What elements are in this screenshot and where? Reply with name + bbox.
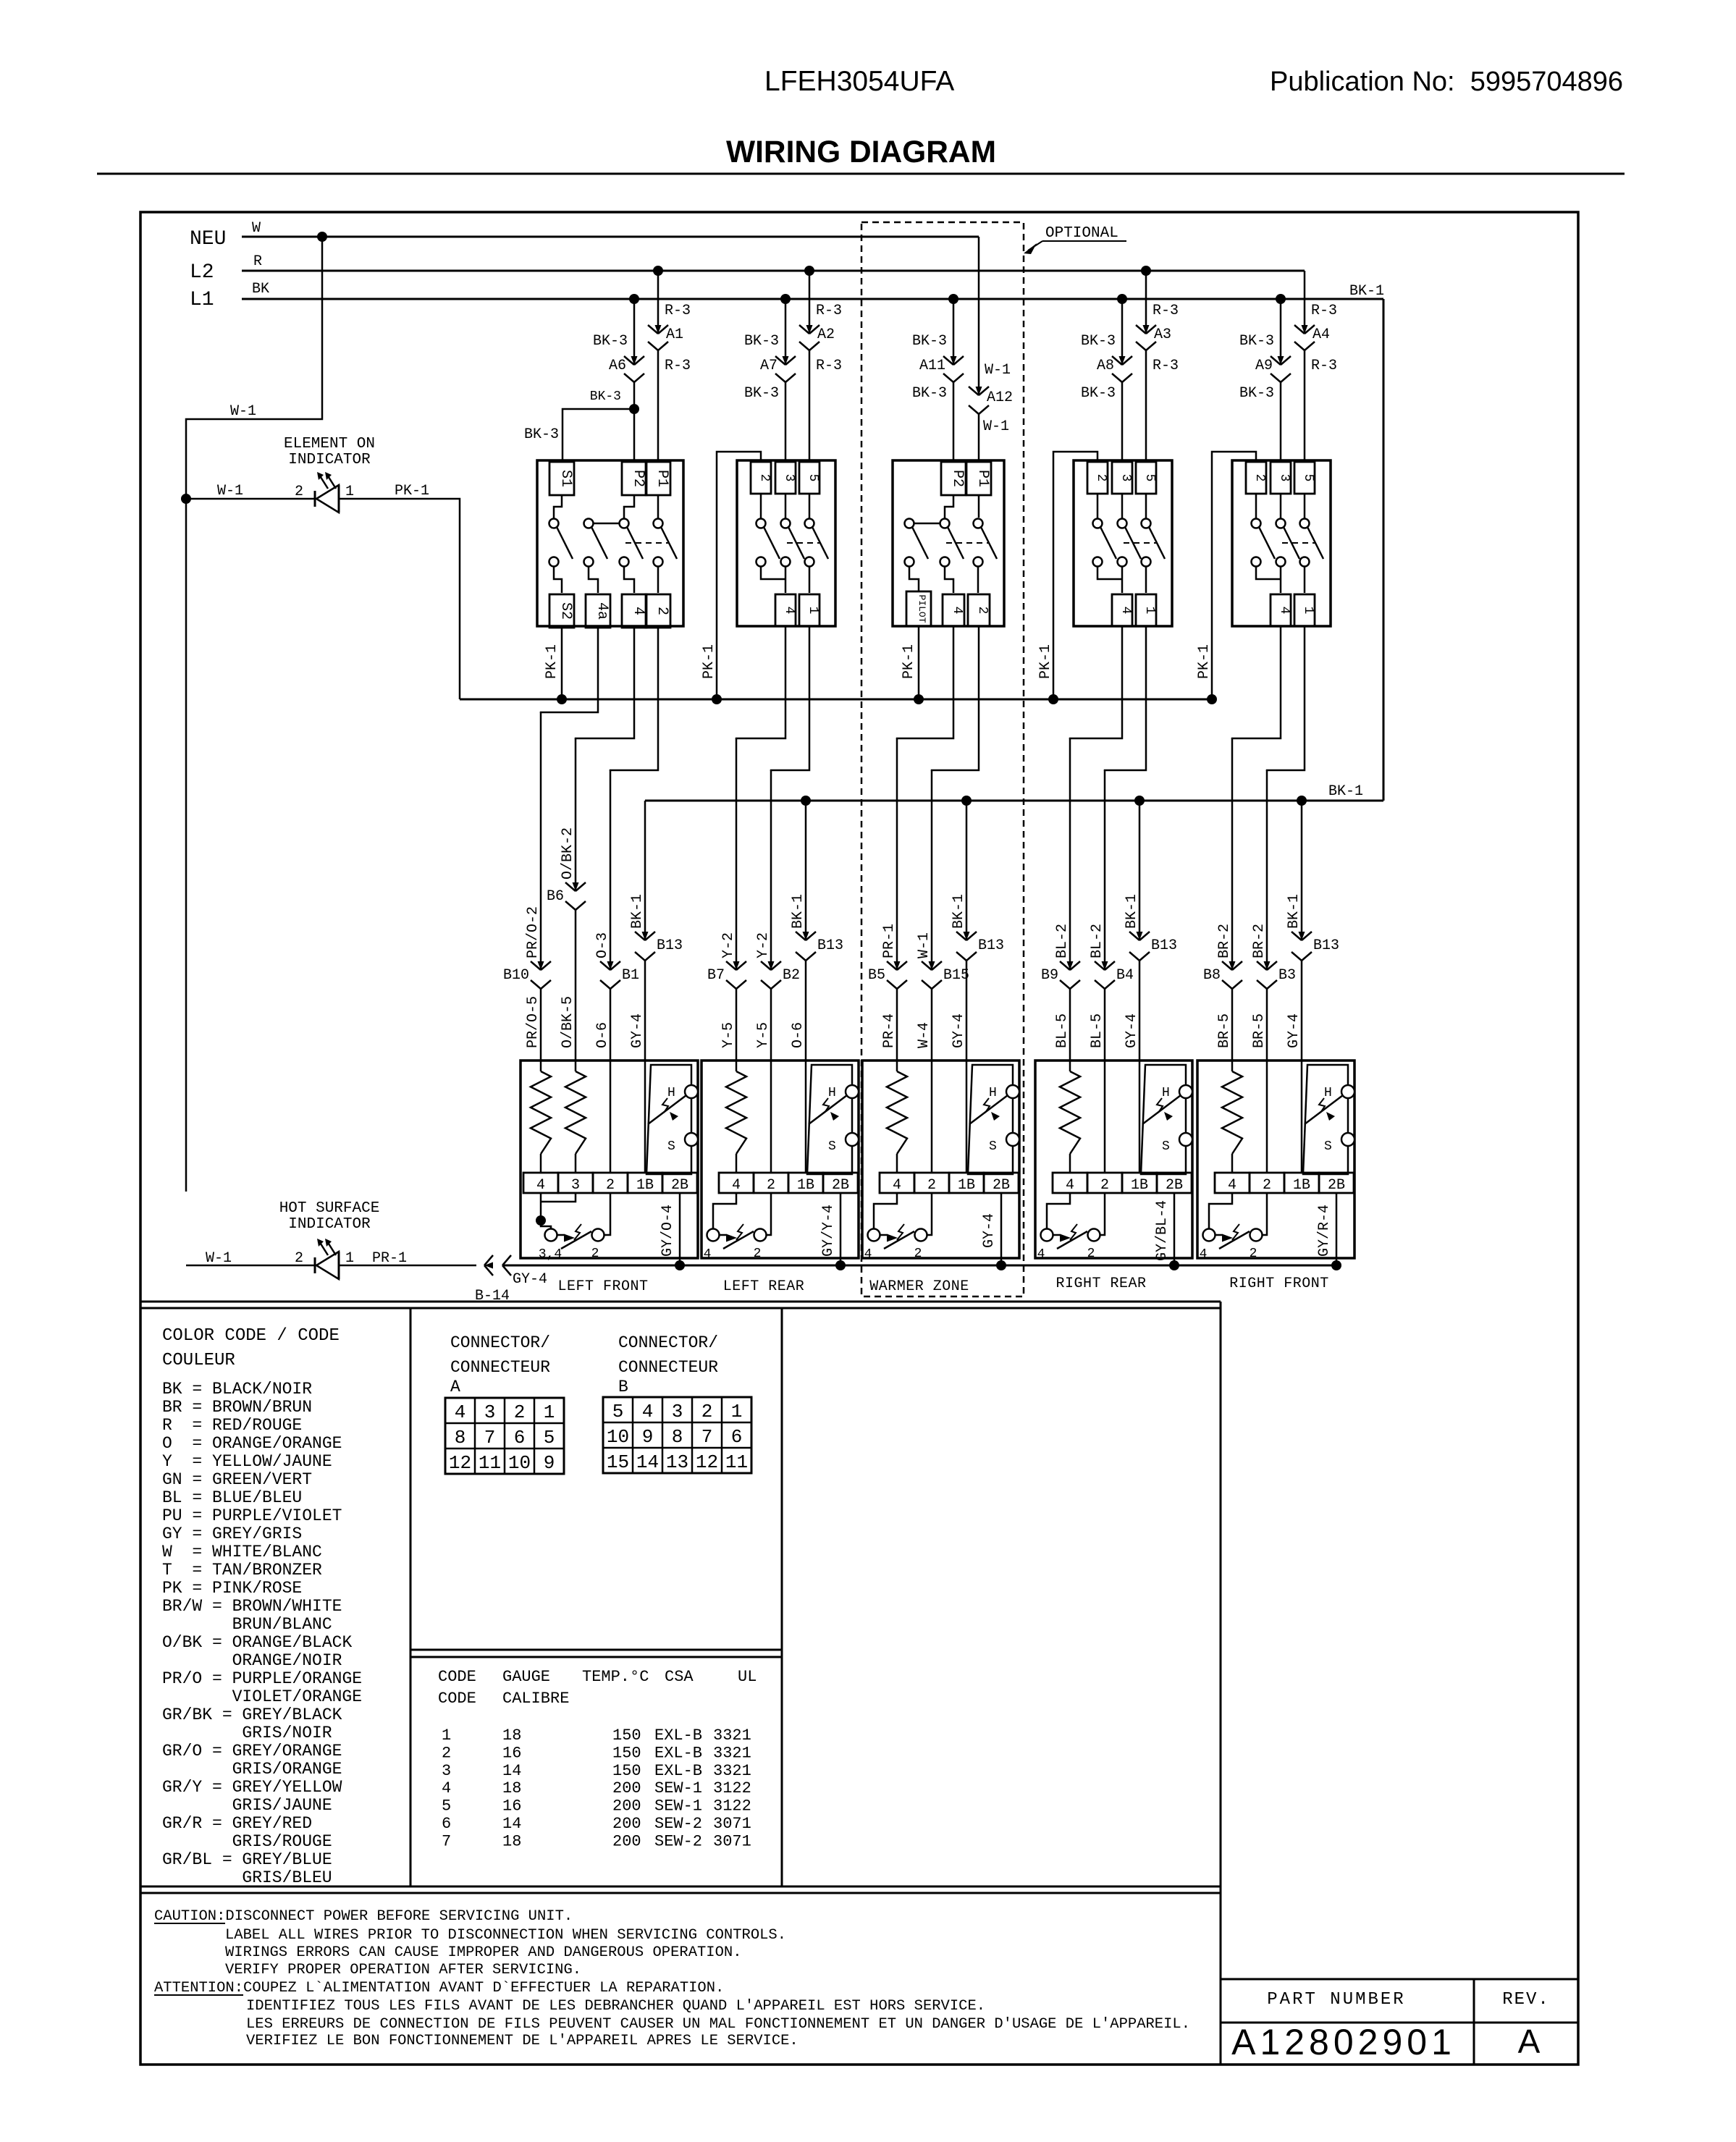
- wire Y-2 into connector B2 (sec2 w2): [770, 770, 772, 970]
- wire PK-1 loop from terminal 2 of SW2 to PK-1 bus: [717, 452, 761, 699]
- svg-text:150: 150: [612, 1726, 641, 1745]
- wire PK-1 from element-on indicator to PK-1 bus: [339, 499, 460, 699]
- svg-text:CONNECTOR/: CONNECTOR/: [618, 1333, 718, 1352]
- svg-text:W-1: W-1: [983, 418, 1009, 435]
- connector B13 male half: [635, 932, 645, 940]
- svg-text:2: 2: [654, 607, 670, 615]
- wire PK-1 from S2 of SW1 to PK-1 bus: [561, 626, 563, 699]
- wire PK-1 horizontal bus: [460, 699, 1212, 701]
- junction PK-1 bus at SW1: [557, 694, 567, 704]
- svg-text:HOT SURFACE: HOT SURFACE: [279, 1200, 380, 1217]
- connector B9 female half: [1060, 980, 1070, 989]
- svg-text:PK-1: PK-1: [544, 644, 560, 679]
- selector blade in WARMER ZONE: [880, 1234, 887, 1236]
- svg-text:GRIS/ROUGE: GRIS/ROUGE: [232, 1832, 332, 1851]
- wire into terminal 2 of RIGHT FRONT: [1266, 1061, 1268, 1173]
- svg-text:BK-3: BK-3: [744, 385, 779, 402]
- selector contact B in RIGHT FRONT: [1250, 1229, 1263, 1241]
- legend bottom border: [140, 1886, 1221, 1888]
- svg-text:LEFT REAR: LEFT REAR: [723, 1278, 805, 1295]
- connector A3 female half: [1136, 342, 1146, 350]
- svg-text:2B: 2B: [993, 1177, 1010, 1194]
- wire BK-3 from A11 to switch: [953, 382, 955, 460]
- connector A1 female half: [648, 342, 658, 350]
- border frame of schematic sheet: [140, 212, 1578, 2065]
- svg-text:VIOLET/ORANGE: VIOLET/ORANGE: [232, 1687, 362, 1706]
- svg-text:16: 16: [502, 1797, 521, 1816]
- ganged dashed link in SW2: [787, 542, 819, 544]
- wire R-3 drop to connector A3: [1145, 271, 1147, 334]
- svg-text:PILOT: PILOT: [917, 594, 927, 623]
- heating element resistor at x=1478 in RIGHT REAR: [1069, 1061, 1071, 1071]
- svg-text:LFEH3054UFA: LFEH3054UFA: [764, 66, 954, 97]
- contacts of SW3: [945, 495, 953, 519]
- selector contact B in RIGHT REAR: [1088, 1229, 1100, 1241]
- wire BR-2 into connector B3 (sec5 w2): [1266, 770, 1268, 970]
- svg-text:TEMP.°C: TEMP.°C: [582, 1668, 649, 1686]
- svg-text:GRIS/ORANGE: GRIS/ORANGE: [232, 1760, 342, 1779]
- svg-text:B13: B13: [1313, 937, 1339, 954]
- svg-text:B: B: [618, 1378, 628, 1396]
- heating element block RIGHT REAR: [1035, 1061, 1192, 1258]
- link between contacts 2 and 3 of SW1: [594, 523, 619, 525]
- svg-text:18: 18: [502, 1832, 521, 1850]
- svg-text:2: 2: [295, 484, 303, 500]
- wire into terminal 1B of WARMER ZONE: [966, 1061, 968, 1173]
- contacts of SW5: [1255, 494, 1257, 519]
- wire BK-1 right drop from L1 to lower BK-1 bus: [1383, 299, 1385, 801]
- connector A4 female half: [1294, 342, 1305, 350]
- svg-text:RIGHT REAR: RIGHT REAR: [1055, 1275, 1146, 1292]
- wire BL-2 into connector B9 (sec4 w1): [1069, 738, 1071, 970]
- wire L2 (R) bus: [242, 270, 1305, 272]
- heating element block LEFT FRONT: [521, 1061, 698, 1258]
- svg-text:P2: P2: [630, 470, 646, 487]
- terminal 4 of SW5: [1271, 594, 1291, 626]
- svg-text:4: 4: [732, 1177, 741, 1194]
- svg-text:GY/Y-4: GY/Y-4: [820, 1205, 837, 1257]
- terminal S2 of SW1: [549, 594, 574, 628]
- svg-text:5: 5: [1301, 474, 1315, 482]
- switch SW4 (RIGHT REAR) body: [1074, 460, 1172, 626]
- svg-text:1: 1: [442, 1726, 451, 1745]
- svg-text:4: 4: [1200, 1247, 1208, 1262]
- contacts of SW1: [554, 495, 562, 519]
- svg-text:EXL-B: EXL-B: [654, 1726, 702, 1745]
- connector B1 male half: [600, 961, 610, 970]
- terminal 1 of SW2: [799, 594, 819, 626]
- svg-text:ELEMENT ON: ELEMENT ON: [284, 436, 375, 452]
- junction PK-1 bus at SW3: [914, 694, 924, 704]
- ganged dashed link in SW1: [625, 542, 668, 544]
- svg-text:15: 15: [607, 1451, 629, 1473]
- svg-text:1: 1: [806, 607, 820, 615]
- terminal 1B of RIGHT REAR element: [1122, 1173, 1157, 1193]
- junction L1 feed SW5: [1276, 294, 1286, 304]
- wire BK-1 into connector B13 (sec2 w3): [805, 801, 807, 940]
- svg-text:7: 7: [701, 1426, 713, 1448]
- terminal 1B of RIGHT FRONT element: [1284, 1173, 1319, 1193]
- svg-text:18: 18: [502, 1726, 521, 1745]
- svg-text:GY-4: GY-4: [1286, 1013, 1302, 1048]
- terminal 2 of WARMER ZONE element: [914, 1173, 949, 1193]
- wire L1 (BK) bus: [242, 298, 1383, 300]
- svg-text:PK = PINK/ROSE: PK = PINK/ROSE: [162, 1579, 302, 1598]
- svg-text:2: 2: [767, 1177, 775, 1194]
- svg-text:16: 16: [502, 1744, 521, 1762]
- svg-text:CONNECTOR/: CONNECTOR/: [450, 1333, 550, 1352]
- wire BL-5 from B9 into element: [1069, 989, 1071, 1061]
- connector B13 female half: [635, 952, 645, 961]
- connector B10 female half: [531, 980, 541, 989]
- wire BR-5 from B8 into element: [1231, 989, 1234, 1061]
- svg-text:NEU: NEU: [190, 228, 226, 250]
- junction PK-1 bus at SW5: [1207, 694, 1217, 704]
- svg-text:3: 3: [1118, 474, 1133, 482]
- selector contact A in WARMER ZONE: [868, 1229, 880, 1241]
- wire GY-4 from B13 into element: [1139, 961, 1141, 1061]
- terminal 2 of SW4: [1087, 462, 1108, 494]
- svg-text:A2: A2: [817, 326, 835, 343]
- svg-text:CODE: CODE: [438, 1690, 476, 1708]
- terminal 2B of RIGHT FRONT element: [1319, 1173, 1354, 1193]
- svg-text:PR-1: PR-1: [881, 924, 898, 958]
- svg-text:14: 14: [502, 1815, 521, 1833]
- svg-text:PK-1: PK-1: [395, 483, 429, 499]
- wire PK-1 from PILOT of SW3 to PK-1 bus: [918, 626, 920, 699]
- svg-text:1: 1: [1301, 607, 1315, 615]
- svg-text:2: 2: [975, 607, 990, 615]
- wire O/BK-5 from B6 into element: [575, 910, 577, 1061]
- svg-text:4a: 4a: [594, 602, 610, 620]
- thermal limiter of RIGHT FRONT: [1303, 1065, 1348, 1174]
- wire R-3 from A1 to switch terminal 5: [657, 350, 660, 460]
- connector B13 male half: [796, 932, 806, 940]
- svg-text:H: H: [1162, 1086, 1170, 1100]
- terminal 4 of LEFT FRONT element: [523, 1173, 558, 1193]
- junction L1 feed SW2: [780, 294, 791, 304]
- svg-text:5: 5: [544, 1427, 555, 1449]
- connector A2 female half: [799, 342, 809, 350]
- svg-text:W: W: [252, 220, 261, 237]
- svg-text:PK-1: PK-1: [1037, 644, 1054, 679]
- svg-text:GRIS/BLEU: GRIS/BLEU: [242, 1868, 332, 1887]
- svg-text:7: 7: [442, 1832, 451, 1850]
- svg-text:H: H: [989, 1086, 997, 1100]
- terminal 4 of WARMER ZONE element: [880, 1173, 914, 1193]
- terminal 2 of SW1: [646, 594, 670, 628]
- wire GY-4 bottom bus under elements: [502, 1265, 1336, 1267]
- wire Y-5 from B7 into element: [736, 989, 738, 1061]
- connector B10 male half: [531, 961, 541, 970]
- connector B5 male half: [887, 961, 897, 970]
- junction at bottom bus LEFT FRONT: [675, 1260, 685, 1270]
- svg-text:S: S: [989, 1139, 997, 1154]
- junction L1 feed SW3: [948, 294, 958, 304]
- svg-text:O/BK-5: O/BK-5: [560, 996, 576, 1048]
- svg-text:CSA: CSA: [665, 1668, 694, 1686]
- svg-text:3122: 3122: [713, 1797, 751, 1816]
- terminal 2 of LEFT REAR element: [754, 1173, 788, 1193]
- selector contact B in LEFT REAR: [754, 1229, 767, 1241]
- wire GY to bus from terminal 2B of LEFT REAR: [840, 1193, 842, 1265]
- wire BL-5 from B4 into element: [1104, 989, 1106, 1061]
- svg-text:1: 1: [345, 1250, 354, 1267]
- svg-text:B4: B4: [1116, 967, 1134, 984]
- svg-text:R-3: R-3: [1311, 303, 1337, 319]
- svg-text:L2: L2: [190, 261, 214, 284]
- terminal 4 of SW2: [775, 594, 796, 626]
- connector B9 male half: [1060, 961, 1070, 970]
- thermal limiter of WARMER ZONE: [968, 1065, 1013, 1174]
- svg-text:GY/O-4: GY/O-4: [660, 1205, 676, 1257]
- svg-text:1: 1: [544, 1401, 555, 1423]
- selector contact A in LEFT FRONT: [545, 1229, 557, 1241]
- svg-text:10: 10: [607, 1426, 629, 1448]
- svg-text:WIRING DIAGRAM: WIRING DIAGRAM: [726, 135, 996, 169]
- limiter blade of LEFT FRONT: [648, 1095, 686, 1124]
- svg-text:IDENTIFIEZ TOUS LES FILS AVANT: IDENTIFIEZ TOUS LES FILS AVANT DE LES DE…: [246, 1998, 985, 2015]
- terminal 3 of LEFT FRONT element: [558, 1173, 593, 1193]
- wire into terminal 2 of LEFT REAR: [770, 1061, 772, 1173]
- svg-text:H: H: [667, 1086, 675, 1100]
- svg-text:4: 4: [893, 1177, 901, 1194]
- terminal 3 of SW5: [1271, 462, 1291, 494]
- wire GY to bus from terminal 2B of WARMER ZONE: [1000, 1193, 1003, 1265]
- svg-text:ORANGE/NOIR: ORANGE/NOIR: [232, 1651, 342, 1670]
- svg-text:A: A: [1518, 2023, 1541, 2060]
- svg-text:3321: 3321: [713, 1762, 751, 1780]
- svg-text:6: 6: [514, 1427, 526, 1449]
- svg-text:3: 3: [782, 474, 796, 482]
- wire terminal 4 hook in LEFT REAR: [713, 1193, 736, 1228]
- svg-text:GY/BL-4: GY/BL-4: [1154, 1200, 1171, 1261]
- svg-text:B5: B5: [868, 967, 885, 984]
- connector A6 male half: [624, 356, 634, 365]
- svg-text:3321: 3321: [713, 1744, 751, 1762]
- heating element block WARMER ZONE: [862, 1061, 1019, 1258]
- svg-text:1: 1: [731, 1401, 743, 1422]
- svg-text:A1: A1: [666, 326, 683, 343]
- wire into terminal 1B of RIGHT FRONT: [1301, 1061, 1303, 1173]
- svg-text:3071: 3071: [713, 1832, 751, 1850]
- LED hot surface indicator: [314, 1257, 316, 1273]
- junction BK-3 branch to S1: [629, 404, 639, 414]
- svg-text:PK-1: PK-1: [701, 644, 717, 679]
- svg-text:GN = GREEN/VERT: GN = GREEN/VERT: [162, 1470, 312, 1489]
- svg-text:4: 4: [864, 1247, 872, 1262]
- svg-text:BK-3: BK-3: [524, 426, 559, 443]
- connector B8 male half: [1222, 961, 1232, 970]
- svg-text:O-6: O-6: [790, 1022, 806, 1048]
- svg-text:CALIBRE: CALIBRE: [502, 1690, 569, 1708]
- wire BL-2 into connector B4 (sec4 w2): [1104, 770, 1106, 970]
- svg-text:EXL-B: EXL-B: [654, 1762, 702, 1780]
- selector blade in LEFT REAR: [720, 1234, 726, 1236]
- svg-text:W-1: W-1: [985, 362, 1011, 379]
- svg-text:GY-4: GY-4: [629, 1013, 646, 1048]
- terminal 4 of RIGHT REAR element: [1053, 1173, 1087, 1193]
- wire R-3 from A3 to switch terminal 5: [1145, 350, 1147, 460]
- connector B pin table: [603, 1397, 751, 1473]
- terminal 4 of SW3: [943, 594, 964, 626]
- junction L2 feed SW1: [653, 266, 663, 276]
- svg-text:1B: 1B: [958, 1177, 975, 1194]
- svg-text:3321: 3321: [713, 1726, 751, 1745]
- selector contact B in LEFT FRONT: [592, 1229, 604, 1241]
- switch SW2 (LEFT REAR) body: [737, 460, 835, 626]
- terminal P1 of SW1: [646, 462, 670, 495]
- wire BK-1 into connector B13 (sec4 w3): [1139, 801, 1141, 940]
- legend area top border lines: [140, 1301, 1221, 1303]
- wire W-4 from B15 into element: [931, 989, 933, 1061]
- connector B13 female half: [956, 952, 966, 961]
- svg-text:GAUGE: GAUGE: [502, 1668, 550, 1686]
- svg-text:2: 2: [295, 1250, 303, 1267]
- wire contact B to terminal 2 in LEFT REAR: [767, 1193, 771, 1235]
- bottom contact links of SW3: [909, 566, 919, 591]
- svg-text:BK-3: BK-3: [1081, 333, 1116, 350]
- svg-text:SEW-2: SEW-2: [654, 1832, 702, 1850]
- svg-text:3: 3: [442, 1762, 451, 1780]
- connector B4 female half: [1095, 980, 1105, 989]
- svg-text:Y-2: Y-2: [755, 932, 772, 958]
- limiter contact H of WARMER ZONE: [1006, 1085, 1019, 1098]
- wire GY-4 from B13 into element: [966, 961, 968, 1061]
- svg-text:O-3: O-3: [594, 932, 611, 958]
- connector B2 male half: [761, 961, 771, 970]
- heating element resistor at x=747 in LEFT FRONT: [540, 1061, 542, 1071]
- thermal limiter of LEFT REAR: [807, 1065, 852, 1174]
- terminal 2 of SW3: [968, 594, 990, 626]
- svg-text:BK-1: BK-1: [951, 894, 967, 929]
- svg-text:BK-3: BK-3: [744, 333, 779, 350]
- svg-text:BK-3: BK-3: [1081, 385, 1116, 402]
- svg-text:INDICATOR: INDICATOR: [288, 452, 371, 468]
- wire BR-5 from B3 into element: [1266, 989, 1268, 1061]
- legend vertical divider right of color-code box: [410, 1308, 412, 1886]
- svg-text:PR/O-2: PR/O-2: [525, 906, 542, 958]
- connector B15 male half: [922, 961, 932, 970]
- junction W-1 at element-on indicator: [181, 494, 191, 504]
- svg-text:1B: 1B: [1131, 1177, 1148, 1194]
- svg-text:150: 150: [612, 1744, 641, 1762]
- terminal P2 of SW3: [941, 462, 966, 495]
- svg-text:6: 6: [731, 1426, 743, 1448]
- wire BK-3 drop to connector A6: [633, 299, 636, 365]
- svg-text:W = WHITE/BLANC: W = WHITE/BLANC: [162, 1543, 322, 1561]
- selector contact B in WARMER ZONE: [915, 1229, 927, 1241]
- svg-text:7: 7: [484, 1427, 496, 1449]
- svg-text:2: 2: [701, 1401, 713, 1422]
- wire BR-2 jog from switch to element column: [1232, 626, 1281, 739]
- ganged dashed link in SW5: [1282, 542, 1315, 544]
- svg-text:O/BK = ORANGE/BLACK: O/BK = ORANGE/BLACK: [162, 1633, 352, 1652]
- junction BK-1 bus at section 5: [1297, 796, 1307, 806]
- svg-text:4: 4: [442, 1779, 451, 1797]
- svg-text:COLOR CODE / CODE: COLOR CODE / CODE: [162, 1326, 340, 1346]
- connector A7 female half: [775, 374, 785, 382]
- connector B13 male half: [1292, 932, 1302, 940]
- svg-text:P2: P2: [949, 470, 966, 487]
- terminal S1 of SW1: [549, 462, 574, 495]
- bottom contact links of SW5: [1256, 566, 1281, 579]
- svg-text:3: 3: [1277, 474, 1292, 482]
- wire PR-1 from hot-surface indicator to connector B-14: [339, 1265, 476, 1267]
- svg-text:O = ORANGE/ORANGE: O = ORANGE/ORANGE: [162, 1434, 342, 1453]
- svg-text:2: 2: [1087, 1247, 1095, 1261]
- svg-text:EXL-B: EXL-B: [654, 1744, 702, 1762]
- svg-text:R-3: R-3: [1153, 358, 1179, 374]
- svg-text:BK = BLACK/NOIR: BK = BLACK/NOIR: [162, 1380, 312, 1399]
- limiter blade of LEFT REAR: [809, 1095, 847, 1124]
- svg-text:PR/O-5: PR/O-5: [525, 996, 542, 1048]
- svg-text:GR/R = GREY/RED: GR/R = GREY/RED: [162, 1814, 312, 1833]
- wire BK-3 from branch junction to P2 terminal: [633, 409, 636, 460]
- terminal 1B of LEFT REAR element: [788, 1173, 823, 1193]
- limiter contact S of LEFT REAR: [846, 1133, 859, 1146]
- svg-text:B6: B6: [547, 888, 564, 905]
- wire O-3 jog from switch to element column: [610, 626, 658, 771]
- contacts of SW2: [760, 494, 762, 519]
- wire GY-4 from B13 into element: [1301, 961, 1303, 1061]
- wire BK-3 from A7 to switch: [785, 382, 787, 460]
- svg-text:UL: UL: [738, 1668, 757, 1686]
- connector B-14 male half: [484, 1255, 493, 1265]
- svg-text:VERIFY PROPER OPERATION AFTER: VERIFY PROPER OPERATION AFTER SERVICING.: [225, 1962, 581, 1978]
- switch SW3 (WARMER ZONE) body: [893, 460, 1004, 626]
- svg-text:150: 150: [612, 1762, 641, 1780]
- svg-text:BL-2: BL-2: [1054, 924, 1071, 958]
- svg-text:BK-1: BK-1: [1124, 894, 1140, 929]
- limiter blade of RIGHT REAR: [1142, 1095, 1181, 1124]
- connector A8 female half: [1112, 374, 1122, 382]
- svg-text:200: 200: [612, 1815, 641, 1833]
- svg-text:INDICATOR: INDICATOR: [288, 1216, 371, 1233]
- heating element block RIGHT FRONT: [1197, 1061, 1354, 1258]
- svg-text:S: S: [828, 1139, 836, 1154]
- svg-text:4: 4: [1277, 607, 1292, 615]
- link between contacts 1 and 2 of SW3: [914, 523, 940, 525]
- junction BK-1 bus at section 4: [1134, 796, 1145, 806]
- connector B13 female half: [1129, 952, 1139, 961]
- title rule: [97, 173, 1625, 175]
- svg-text:2B: 2B: [832, 1177, 849, 1194]
- svg-text:2: 2: [927, 1177, 936, 1194]
- terminal 3 of SW2: [775, 462, 796, 494]
- svg-text:CONNECTEUR: CONNECTEUR: [618, 1358, 718, 1377]
- limiter blade of RIGHT FRONT: [1305, 1095, 1343, 1124]
- connector A7 male half: [775, 356, 785, 365]
- svg-text:BR-5: BR-5: [1251, 1013, 1268, 1048]
- junction at bottom bus RIGHT FRONT: [1331, 1260, 1341, 1270]
- svg-text:R-3: R-3: [665, 303, 691, 319]
- svg-text:200: 200: [612, 1797, 641, 1816]
- connector B6 male half: [565, 882, 576, 891]
- svg-text:A9: A9: [1255, 358, 1273, 374]
- selector blade in RIGHT REAR: [1053, 1234, 1060, 1236]
- svg-text:2B: 2B: [1166, 1177, 1183, 1194]
- wire PK-1 loop from terminal 2 of SW4 to PK-1 bus: [1053, 452, 1097, 699]
- limiter contact H of LEFT REAR: [846, 1085, 859, 1098]
- svg-text:R-3: R-3: [816, 358, 842, 374]
- svg-text:14: 14: [502, 1762, 521, 1780]
- wire BR-2 jog from switch to element column: [1267, 626, 1305, 771]
- svg-text:A11: A11: [919, 358, 945, 374]
- wire PK-1 loop from terminal 2 of SW5 to PK-1 bus: [1212, 452, 1256, 699]
- svg-text:12: 12: [449, 1452, 471, 1474]
- svg-text:11: 11: [725, 1451, 748, 1473]
